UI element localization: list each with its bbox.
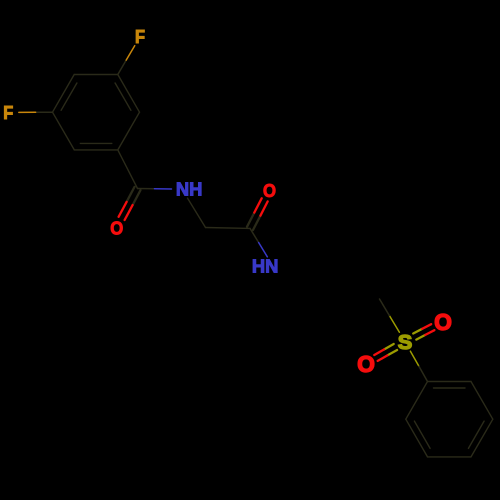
svg-text:NH: NH [176,180,203,200]
oxygen label O1 [110,217,123,238]
bond C3-F2 [19,111,53,113]
amide 1 C-N bond [138,188,172,191]
oxygen label O3 [434,309,452,335]
bond S-CH3 [380,299,400,332]
bond CH2-C2' [206,227,251,230]
sulfur label S [398,332,412,354]
svg-text:F: F [135,27,145,47]
svg-text:O: O [434,309,452,335]
bond C5-F1 [118,46,135,75]
amide 2 label HN [252,256,279,276]
fluorine label F1 [135,27,145,47]
amide 2 C=O double bond [247,198,268,230]
svg-text:F: F [3,103,13,123]
svg-text:S: S [398,332,412,354]
amide 2 C-N bond [250,228,267,256]
svg-text:O: O [263,180,276,201]
benzene ring R1 (3,5-difluorophenyl) [53,75,140,150]
fluorine label F2 [3,103,13,123]
oxygen label O2 [263,180,276,201]
svg-text:O: O [357,351,375,377]
svg-text:HN: HN [252,256,279,276]
bond R1-carbonyl C1' [118,150,138,189]
bond S-R2 [410,351,427,381]
benzene ring R2 (phenyl of methylsulfonyl-benzene) [406,382,493,457]
svg-text:O: O [110,217,123,238]
sulfonyl S=O double bond (lower left) [374,344,397,361]
bond N1-CH2 [188,198,206,227]
oxygen label O4 [357,351,375,377]
amide 1 label NH [176,180,203,200]
amide 1 C=O double bond [119,187,141,220]
sulfonyl S=O double bond (upper right) [413,324,434,339]
